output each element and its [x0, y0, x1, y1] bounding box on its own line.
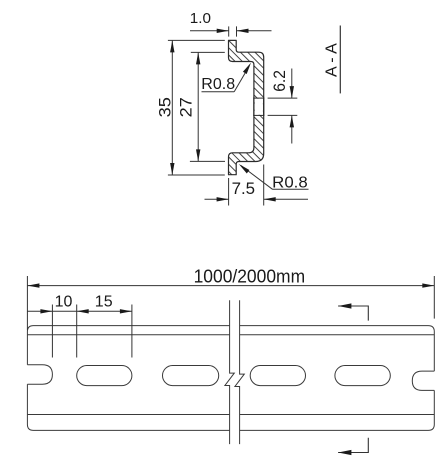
DIN rail profile section (hatched bent sheet)	[229, 40, 264, 174]
dimension 27 line	[197, 52, 199, 161]
svg-text:15: 15	[95, 293, 113, 310]
dimension 10 arrowhead at half-slot end	[40, 309, 52, 313]
extension line 35 bottom	[168, 174, 225, 176]
dimension 15 left arrowhead	[77, 309, 89, 313]
svg-text:R0.8: R0.8	[201, 76, 235, 93]
dimension 27 bottom arrowhead	[196, 149, 200, 161]
dimension 35 line	[171, 40, 173, 175]
label R0.8 lower leader line	[241, 165, 273, 189]
dimension 7.5 right arrowhead	[264, 197, 276, 201]
svg-text:7.5: 7.5	[232, 179, 256, 198]
svg-text:10: 10	[55, 293, 73, 310]
svg-text:A - A: A - A	[323, 43, 340, 77]
svg-text:6.2: 6.2	[271, 70, 289, 92]
half slot at right rail end	[412, 371, 434, 390]
extension line 27 bottom	[190, 160, 225, 162]
rail bend line 2 right	[240, 334, 435, 336]
label R0.8 lower underline	[273, 188, 309, 190]
extension line at slot1 left	[76, 305, 78, 358]
dimension 15 right arrowhead	[120, 309, 132, 313]
section cut arrow top arrowhead	[338, 303, 351, 308]
dimension 6.2 extension line bottom	[268, 114, 298, 116]
dimension 1.0 right tail	[237, 30, 272, 32]
dimension 35 bottom arrowhead	[170, 163, 174, 175]
slot 4	[335, 366, 390, 386]
slot lower edge line across web	[253, 114, 264, 116]
rail outline right part	[240, 326, 435, 431]
svg-text:27: 27	[177, 97, 196, 117]
extension line 1.0 left	[228, 26, 230, 36]
wire: web left edge through gap	[253, 98, 255, 117]
extension line 1000 right	[433, 276, 435, 319]
dimension 1000 left arrowhead	[27, 283, 39, 287]
dimension 6.2 upper arrowhead	[290, 86, 294, 98]
dimension 1000 right arrowhead	[422, 283, 434, 287]
label R0.8 upper arrowhead	[243, 63, 251, 74]
dimension 7.5 extension line right	[263, 165, 265, 206]
section label A - A line	[339, 26, 341, 94]
break line left with Z jog	[225, 300, 234, 444]
half slot at left rail end	[27, 365, 52, 384]
rail bend line 2 left	[27, 334, 229, 336]
extension line 35 top	[168, 39, 225, 41]
slot upper edge line across web	[253, 97, 264, 99]
dimension 1.0 left tail	[190, 30, 229, 32]
slot gap in web (section passes through slot)	[255, 99, 263, 115]
wire: web right edge through gap	[263, 98, 265, 117]
dimension 10/15 line	[27, 310, 132, 312]
dimension 6.2 lower arrowhead	[290, 115, 294, 127]
rail bend line 3 left	[27, 414, 229, 416]
svg-text:35: 35	[156, 97, 175, 117]
label R0.8 lower arrowhead	[239, 164, 250, 174]
dimension 7.5 right tail	[264, 198, 308, 200]
extension line 1.0 right	[236, 26, 238, 36]
dimension 1000/2000mm line	[27, 285, 434, 287]
dimension 35 top arrowhead	[170, 40, 174, 52]
section cut arrow bottom arrowhead	[338, 450, 351, 455]
label R0.8 upper underline	[202, 91, 235, 93]
extension line at slot1 right	[131, 305, 133, 358]
section cut arrow bottom	[338, 438, 368, 453]
dimension 7.5 left tail	[205, 198, 229, 200]
dimension 6.2 extension line top	[268, 97, 298, 99]
slot 3	[250, 366, 305, 386]
section cut arrow top	[338, 306, 368, 321]
svg-text:1000/2000mm: 1000/2000mm	[194, 266, 306, 286]
dimension 1.0 right arrowhead	[237, 29, 249, 33]
slot 2	[163, 366, 219, 386]
slot 1	[77, 366, 132, 386]
dimension 1.0 left arrowhead	[217, 29, 229, 33]
label R0.8 upper leader line	[234, 66, 249, 92]
svg-text:1.0: 1.0	[190, 10, 211, 27]
dimension 6.2 upper line	[291, 69, 293, 99]
extension line 1000 left	[26, 276, 28, 330]
extension line 27 top	[191, 51, 225, 53]
dimension 27 top arrowhead	[196, 52, 200, 64]
rail outline left part	[27, 326, 229, 431]
dimension 6.2 lower line	[291, 115, 293, 143]
dimension 7.5 extension line left	[228, 178, 230, 206]
dimension 7.5 left arrowhead	[217, 197, 229, 201]
break line right with Z jog	[235, 300, 244, 444]
extension line at half-slot right end	[51, 305, 53, 358]
rail bend line 3 right	[240, 414, 435, 416]
